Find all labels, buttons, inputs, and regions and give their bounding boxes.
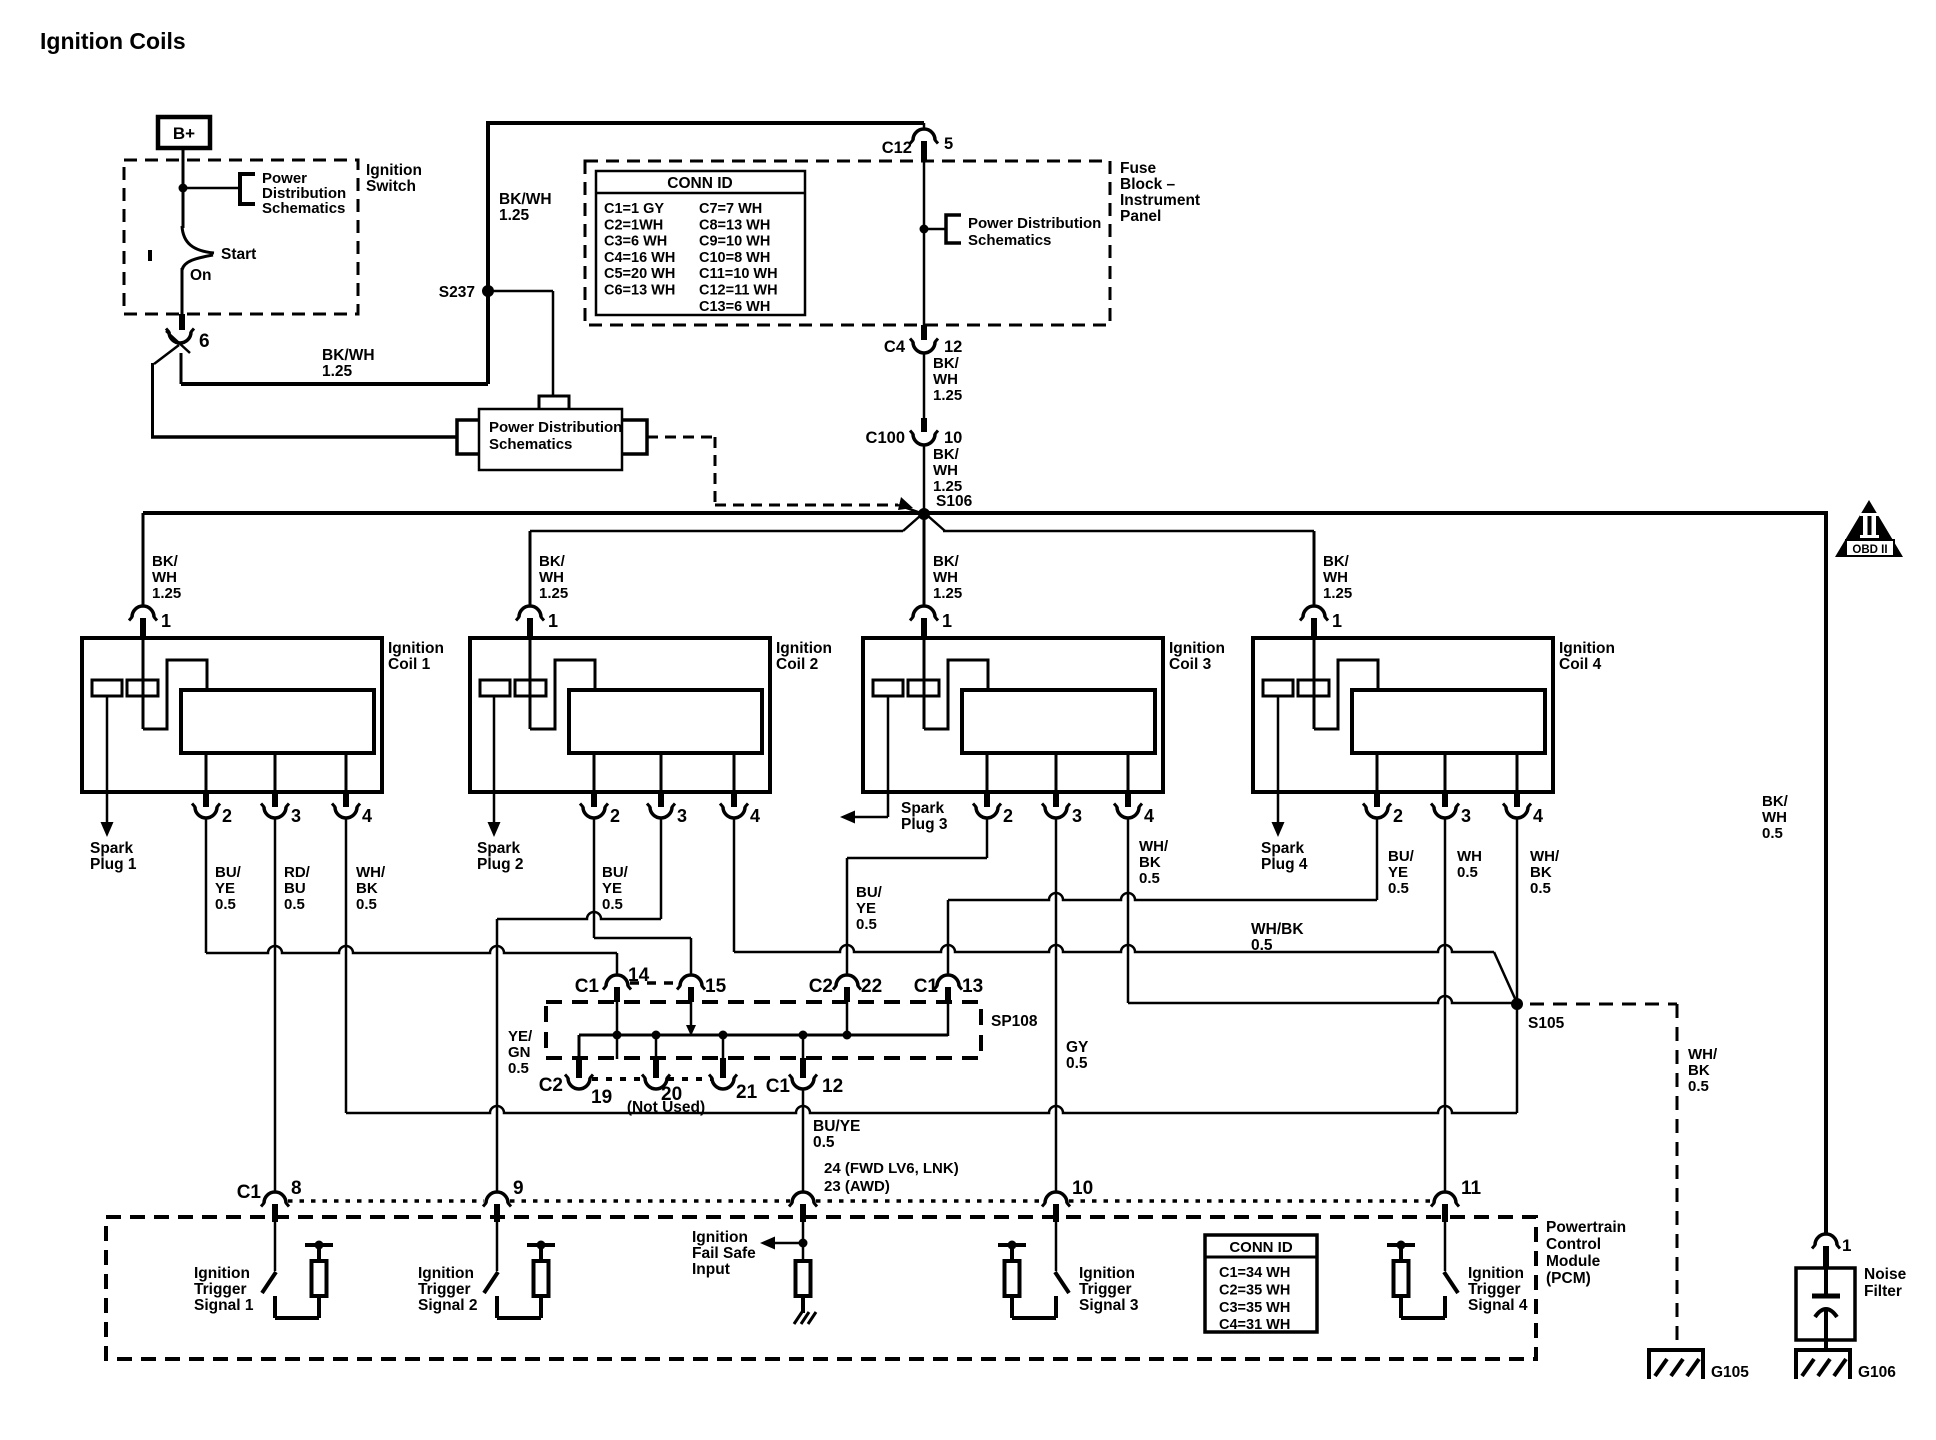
svg-text:Plug 1: Plug 1 (90, 856, 137, 873)
wire SP108 pin12 BU/YE 0.5 to PCM (802, 1089, 805, 1192)
wire coil3 pin4 WH/BK 0.5 to splice S105 (1127, 818, 1130, 1003)
svg-text:WH: WH (539, 569, 564, 586)
wire pin6 to power distribution schematics box (151, 363, 154, 437)
ignition coil 1 primary terminal blocks (92, 680, 122, 696)
svg-text:BU/: BU/ (1388, 848, 1415, 865)
svg-text:Spark: Spark (1261, 840, 1304, 857)
svg-text:WH: WH (1323, 569, 1348, 586)
ignition switch contact On (182, 255, 213, 270)
connector pin 4 of ignition coil 1 (343, 793, 349, 807)
svg-text:C12=11 WH: C12=11 WH (699, 283, 778, 299)
power distribution schematics box (479, 409, 622, 470)
svg-text:4: 4 (362, 806, 372, 826)
svg-text:0.5: 0.5 (1530, 880, 1551, 897)
PCM connector row dotted line (288, 1199, 484, 1203)
svg-text:Plug 3: Plug 3 (901, 816, 948, 833)
svg-text:0.5: 0.5 (1139, 870, 1160, 887)
svg-text:1.25: 1.25 (499, 207, 530, 224)
svg-text:1.25: 1.25 (152, 585, 181, 602)
bus branch to coil 2 (530, 530, 903, 533)
svg-text:Schematics: Schematics (489, 436, 572, 453)
wire coil3 pin2 BU/YE 0.5 to SP108 pin 22 (986, 818, 989, 858)
svg-text:GN: GN (508, 1044, 531, 1061)
power distribution schematics bracket (fuse block) (946, 215, 961, 243)
svg-text:Plug 4: Plug 4 (1261, 856, 1308, 873)
svg-text:3: 3 (1461, 806, 1471, 826)
connector pin 4 of ignition coil 4 (1514, 793, 1520, 807)
svg-text:S105: S105 (1528, 1015, 1565, 1032)
wire coil4 pin4 WH/BK 0.5 through S105 (1516, 818, 1519, 1113)
main bus wire BK/WH (143, 511, 1826, 515)
ignition coil 1 output pins (205, 753, 208, 793)
ignition coil 2 secondary winding box (569, 690, 762, 753)
svg-text:BU/: BU/ (215, 864, 242, 881)
CONN ID table (PCM) (1205, 1235, 1317, 1332)
connector pin 3 of ignition coil 3 (1053, 793, 1059, 807)
wire coil3 pin3 GY 0.5 to PCM pin 10 (1055, 818, 1058, 1192)
B+ battery terminal box (158, 117, 210, 148)
ignition coil 2 primary terminal blocks (480, 680, 510, 696)
svg-text:WH: WH (1762, 809, 1787, 826)
svg-text:1: 1 (942, 611, 952, 631)
svg-text:BK/: BK/ (1323, 553, 1350, 570)
svg-text:3: 3 (677, 806, 687, 826)
connector PCM pin 10 (1045, 1192, 1067, 1203)
svg-text:6: 6 (199, 331, 210, 352)
connector pin 2 of ignition coil 4 (1374, 793, 1380, 807)
ignition coil 3 output pins (986, 753, 989, 793)
connector SP108 C2 pin 19 (578, 1035, 581, 1062)
svg-text:BU/: BU/ (856, 884, 883, 901)
svg-text:Signal 4: Signal 4 (1468, 1297, 1528, 1314)
svg-text:Coil 4: Coil 4 (1559, 656, 1602, 673)
svg-text:Ignition: Ignition (1468, 1265, 1524, 1282)
svg-text:1.25: 1.25 (933, 585, 962, 602)
svg-text:10: 10 (944, 429, 962, 447)
svg-text:C100: C100 (866, 429, 905, 447)
ignition coil 4 output pins (1376, 753, 1379, 793)
svg-text:C2=1WH: C2=1WH (604, 217, 663, 233)
svg-text:C1: C1 (766, 1076, 791, 1097)
wire to power distribution reference (183, 187, 240, 190)
svg-text:WH/: WH/ (1139, 838, 1169, 855)
svg-text:BK/WH: BK/WH (499, 191, 552, 208)
svg-text:WH: WH (1457, 848, 1482, 865)
wire coil4 pin2 BU/YE 0.5 to SP108 pin 13 (1376, 818, 1379, 900)
wire bus drop to ignition coil 3 BK/WH 1.25 (923, 516, 926, 607)
svg-text:C5=20 WH: C5=20 WH (604, 266, 675, 282)
wire B+ to ignition switch (182, 148, 185, 228)
svg-text:Power Distribution: Power Distribution (968, 215, 1101, 232)
dashed connector line pins 14-15 (630, 981, 680, 985)
svg-text:G105: G105 (1711, 1364, 1749, 1381)
svg-text:(Not Used): (Not Used) (627, 1099, 705, 1116)
svg-text:Spark: Spark (90, 840, 133, 857)
svg-text:Coil 3: Coil 3 (1169, 656, 1212, 673)
power distribution schematics bracket (ignition switch) (240, 174, 255, 204)
splice S106 (918, 508, 930, 520)
connector PCM pin 11 (1434, 1192, 1456, 1203)
svg-text:Ignition: Ignition (776, 640, 832, 657)
bus branch to coil 4 (928, 516, 945, 531)
wire coil4 pin3 WH 0.5 to PCM pin 11 (1444, 818, 1447, 1192)
svg-text:C4=16 WH: C4=16 WH (604, 250, 675, 266)
splice S105 (1511, 998, 1523, 1010)
svg-text:YE/: YE/ (508, 1028, 533, 1045)
connector pin 1 of ignition coil 4 (1303, 606, 1325, 617)
svg-text:BK: BK (1139, 854, 1161, 871)
svg-text:0.5: 0.5 (1388, 880, 1409, 897)
svg-text:BK: BK (356, 880, 378, 897)
svg-text:C12: C12 (882, 139, 912, 157)
connector noise filter pin 1 (1815, 1234, 1837, 1245)
svg-text:Signal 2: Signal 2 (418, 1297, 477, 1314)
svg-text:RD/: RD/ (284, 864, 311, 881)
ground G105 (1647, 1348, 1705, 1352)
svg-text:Ignition: Ignition (388, 640, 444, 657)
ignition coil 3 secondary winding box (962, 690, 1155, 753)
svg-text:Trigger: Trigger (1468, 1281, 1521, 1298)
connector pin 1 of ignition coil 3 (913, 606, 935, 617)
wire S237 up to C12 feed line (486, 123, 490, 293)
svg-text:Signal 1: Signal 1 (194, 1297, 254, 1314)
svg-text:BK/: BK/ (152, 553, 179, 570)
svg-text:Ignition: Ignition (1169, 640, 1225, 657)
connector pin 2 of ignition coil 3 (984, 793, 990, 807)
svg-text:CONN ID: CONN ID (667, 175, 732, 192)
svg-text:4: 4 (1144, 806, 1154, 826)
svg-text:YE: YE (1388, 864, 1408, 881)
svg-text:12: 12 (822, 1076, 843, 1097)
ignition coil 3 primary wire (923, 639, 926, 729)
svg-text:On: On (190, 267, 212, 284)
svg-text:0.5: 0.5 (356, 896, 377, 913)
svg-text:C11=10 WH: C11=10 WH (699, 266, 778, 282)
svg-text:WH/BK: WH/BK (1251, 921, 1304, 938)
ignition coil 1 box (82, 638, 382, 792)
ignition trigger signal 3 driver (switch + resistor) (1055, 1222, 1058, 1271)
svg-text:BK/: BK/ (933, 446, 960, 463)
connector SP108 pin 15 (680, 975, 702, 986)
svg-text:1: 1 (1842, 1236, 1851, 1255)
spark plug 4 wire (1277, 696, 1280, 823)
connector pin 3 of ignition coil 4 (1442, 793, 1448, 807)
svg-text:11: 11 (1461, 1178, 1482, 1199)
svg-text:BK/: BK/ (933, 553, 960, 570)
connector SP108 C1 pin 12 (802, 1035, 805, 1062)
svg-text:B+: B+ (173, 124, 195, 143)
svg-text:Signal 3: Signal 3 (1079, 1297, 1139, 1314)
connector C100 pin 10 (921, 418, 927, 432)
svg-text:1.25: 1.25 (1323, 585, 1352, 602)
svg-text:0.5: 0.5 (1457, 864, 1478, 881)
connector pin 1 of ignition coil 2 (519, 606, 541, 617)
wire coil1 pin3 RD/BU 0.5 to PCM pin 8 (274, 818, 277, 1192)
svg-text:BU/YE: BU/YE (813, 1118, 860, 1135)
svg-text:1: 1 (1332, 611, 1342, 631)
svg-text:Filter: Filter (1864, 1283, 1902, 1300)
power distribution box right bracket (622, 420, 647, 454)
ignition coil 3 primary terminal blocks (873, 680, 903, 696)
power distribution box left bracket (457, 420, 479, 454)
svg-text:Coil 2: Coil 2 (776, 656, 818, 673)
connector PCM pin 24/23 (fail safe) (792, 1192, 814, 1203)
connector pin 4 of ignition coil 2 (731, 793, 737, 807)
svg-text:YE: YE (602, 880, 622, 897)
wire bus drop to ignition coil 1 BK/WH 1.25 (142, 513, 145, 607)
svg-text:C6=13 WH: C6=13 WH (604, 283, 675, 299)
connector C4 pin 12 (921, 325, 927, 340)
svg-text:Block –: Block – (1120, 176, 1176, 193)
svg-text:C1=34 WH: C1=34 WH (1219, 1265, 1290, 1281)
CONN ID table (fuse block) (596, 171, 805, 315)
svg-text:G106: G106 (1858, 1364, 1896, 1381)
SP108 internal bus wire (579, 1034, 948, 1037)
svg-text:0.5: 0.5 (856, 916, 877, 933)
noise filter capacitor (1824, 1268, 1828, 1294)
svg-text:Start: Start (221, 246, 256, 263)
wire coil1 pin4 WH/BK 0.5 to S105 branch (345, 818, 348, 1113)
svg-text:C1: C1 (575, 976, 600, 997)
svg-text:1.25: 1.25 (933, 387, 962, 404)
svg-text:C2=35 WH: C2=35 WH (1219, 1282, 1290, 1298)
spark plug 2 wire (493, 696, 496, 823)
svg-text:2: 2 (1003, 806, 1013, 826)
svg-text:Panel: Panel (1120, 208, 1161, 225)
svg-text:2: 2 (222, 806, 232, 826)
connector SP108 C2 pin 22 (836, 975, 858, 986)
wire from pin 6 (crossing ticks) (154, 345, 179, 364)
svg-text:C2: C2 (809, 976, 833, 997)
wire pin6 to splice S237 BK/WH 1.25 (180, 353, 183, 384)
svg-text:9: 9 (513, 1178, 524, 1199)
ignition trigger signal 4 driver (switch + resistor) (1444, 1222, 1447, 1271)
ground G106 (1794, 1348, 1852, 1352)
svg-text:0.5: 0.5 (215, 896, 236, 913)
OBD II symbol (1835, 500, 1903, 557)
fuse block - instrument panel dashed box (585, 161, 1110, 325)
svg-text:GY: GY (1066, 1039, 1089, 1056)
svg-text:2: 2 (1393, 806, 1403, 826)
wire bus to noise filter (right edge) (1824, 511, 1828, 1234)
svg-text:S106: S106 (936, 493, 973, 510)
svg-text:Coil 1: Coil 1 (388, 656, 431, 673)
svg-text:Switch: Switch (366, 178, 416, 195)
svg-text:0.5: 0.5 (1066, 1055, 1088, 1072)
wire coil2 pin3 to PCM pin 9 (660, 818, 663, 919)
ignition coil 2 primary wire (529, 639, 532, 729)
svg-text:21: 21 (736, 1082, 758, 1103)
svg-text:1: 1 (161, 611, 171, 631)
svg-text:0.5: 0.5 (284, 896, 305, 913)
svg-text:C1: C1 (237, 1182, 262, 1203)
svg-text:15: 15 (705, 976, 727, 997)
svg-text:C7=7 WH: C7=7 WH (699, 201, 762, 217)
node: junction at ignition switch feed (179, 184, 188, 193)
svg-text:BU: BU (284, 880, 306, 897)
svg-text:BK/WH: BK/WH (322, 347, 375, 364)
svg-text:0.5: 0.5 (1762, 825, 1783, 842)
svg-text:Ignition: Ignition (1079, 1265, 1135, 1282)
svg-text:C3=6 WH: C3=6 WH (604, 234, 667, 250)
ignition trigger signal 1 driver (switch + resistor) (274, 1222, 277, 1271)
svg-text:YE: YE (215, 880, 235, 897)
svg-text:24 (FWD LV6, LNK): 24 (FWD LV6, LNK) (824, 1160, 959, 1177)
svg-text:WH/: WH/ (1688, 1046, 1718, 1063)
ignition coil 3 box (863, 638, 1163, 792)
ignition trigger signal 2 driver (switch + resistor) (496, 1222, 499, 1271)
svg-text:19: 19 (591, 1087, 612, 1108)
svg-text:Trigger: Trigger (418, 1281, 471, 1298)
svg-text:0.5: 0.5 (1688, 1078, 1709, 1095)
ignition coil 2 box (470, 638, 770, 792)
connector SP108 pin 21 (722, 1035, 725, 1062)
svg-text:Ignition: Ignition (366, 162, 422, 179)
connector pin 2 of ignition coil 1 (203, 793, 209, 807)
connector pin 6 of ignition switch (179, 314, 185, 330)
svg-text:WH: WH (933, 462, 958, 479)
svg-text:Ignition: Ignition (194, 1265, 250, 1282)
svg-text:BK: BK (1688, 1062, 1710, 1079)
dashed wire S105 to ground G105 WH/BK 0.5 (1530, 1003, 1677, 1006)
wire coil2 pin2 BU/YE 0.5 to SP108 pin 15 (593, 818, 596, 938)
connector pin 4 of ignition coil 3 (1125, 793, 1131, 807)
svg-text:Control: Control (1546, 1236, 1601, 1253)
connector PCM pin 9 (486, 1192, 508, 1203)
wire inside fuse block (923, 161, 926, 325)
svg-text:12: 12 (944, 338, 962, 356)
svg-text:SP108: SP108 (991, 1013, 1038, 1030)
svg-text:S237: S237 (439, 284, 475, 301)
connector C12 pin 5 (923, 123, 926, 130)
svg-text:C1: C1 (914, 976, 939, 997)
svg-text:C13=6 WH: C13=6 WH (699, 299, 770, 315)
spark plug 3 wire (887, 696, 890, 817)
ignition fail safe input circuit (802, 1222, 805, 1261)
ground (PCM internal) (794, 1312, 802, 1324)
svg-text:CONN ID: CONN ID (1229, 1239, 1293, 1256)
connector SP108 C1 pin 14 (606, 975, 628, 986)
svg-text:Ignition: Ignition (1559, 640, 1615, 657)
ignition switch dashed box (124, 160, 358, 314)
wire C4 to C100 BK/WH 1.25 (923, 353, 926, 420)
svg-text:23 (AWD): 23 (AWD) (824, 1178, 890, 1195)
wire bus drop to ignition coil 4 BK/WH 1.25 (1313, 531, 1316, 607)
svg-text:(PCM): (PCM) (1546, 1270, 1591, 1287)
svg-text:13: 13 (962, 976, 983, 997)
svg-text:Module: Module (1546, 1253, 1601, 1270)
svg-text:BK/: BK/ (933, 355, 960, 372)
wire coil2 pin4 WH/BK 0.5 to splice S105 (733, 818, 736, 952)
connector PCM pin 8 (264, 1192, 286, 1203)
svg-text:3: 3 (291, 806, 301, 826)
wire bus drop to ignition coil 2 BK/WH 1.25 (529, 531, 532, 607)
connector SP108 pin 20 (not used) (655, 1035, 658, 1062)
wire coil1 pin2 BU/YE 0.5 to SP108 pin 14 (205, 818, 208, 953)
svg-text:10: 10 (1072, 1178, 1093, 1199)
svg-text:Ignition: Ignition (418, 1265, 474, 1282)
dotted connector line pins 19-21 (592, 1077, 644, 1081)
dashed wire from power distribution box to S106 (647, 436, 716, 439)
svg-text:4: 4 (1533, 806, 1543, 826)
connector pin 3 of ignition coil 2 (658, 793, 664, 807)
svg-text:OBD II: OBD II (1852, 544, 1887, 556)
ignition coil 2 output pins (593, 753, 596, 793)
svg-text:0.5: 0.5 (1251, 937, 1273, 954)
svg-text:WH: WH (152, 569, 177, 586)
powertrain control module dashed box (106, 1217, 1536, 1359)
svg-text:BU/: BU/ (602, 864, 629, 881)
connector pin 2 of ignition coil 2 (591, 793, 597, 807)
svg-text:WH/: WH/ (1530, 848, 1560, 865)
svg-text:Trigger: Trigger (1079, 1281, 1132, 1298)
svg-text:Input: Input (692, 1261, 730, 1278)
lock position tick (148, 250, 152, 261)
svg-text:Schematics: Schematics (968, 232, 1051, 249)
svg-text:WH/: WH/ (356, 864, 386, 881)
svg-text:1.25: 1.25 (322, 363, 353, 380)
svg-text:Noise: Noise (1864, 1266, 1907, 1283)
svg-text:Instrument: Instrument (1120, 192, 1200, 209)
noise filter box (1796, 1268, 1855, 1340)
splice S237 (486, 291, 490, 384)
svg-text:Spark: Spark (901, 800, 944, 817)
ignition coil 4 box (1253, 638, 1553, 792)
svg-text:C3=35 WH: C3=35 WH (1219, 1300, 1290, 1316)
ignition coil 4 primary wire (1313, 639, 1316, 729)
svg-text:YE: YE (856, 900, 876, 917)
svg-text:Spark: Spark (477, 840, 520, 857)
ignition coil 4 secondary winding box (1352, 690, 1545, 753)
svg-text:0.5: 0.5 (813, 1134, 835, 1151)
wire S237 to power distribution schematics box top (488, 290, 553, 293)
svg-text:WH: WH (933, 371, 958, 388)
svg-text:1: 1 (548, 611, 558, 631)
splice pack SP108 dashed box (546, 1002, 981, 1058)
svg-text:C9=10 WH: C9=10 WH (699, 234, 770, 250)
svg-text:0.5: 0.5 (508, 1060, 529, 1077)
svg-text:8: 8 (291, 1178, 302, 1199)
svg-text:C4=31 WH: C4=31 WH (1219, 1317, 1290, 1333)
ignition coil 1 primary wire (142, 639, 145, 729)
svg-text:Powertrain: Powertrain (1546, 1219, 1626, 1236)
node: power distribution tap in fuse block (920, 225, 929, 234)
svg-text:Fail Safe: Fail Safe (692, 1245, 756, 1262)
svg-text:2: 2 (610, 806, 620, 826)
svg-text:C4: C4 (884, 338, 906, 356)
connector pin 3 of ignition coil 1 (272, 793, 278, 807)
svg-text:22: 22 (861, 976, 882, 997)
svg-text:5: 5 (944, 135, 953, 153)
connector pin 1 of ignition coil 1 (132, 606, 154, 617)
svg-text:BK: BK (1530, 864, 1552, 881)
svg-text:C1=1 GY: C1=1 GY (604, 201, 664, 217)
svg-text:Plug 2: Plug 2 (477, 856, 524, 873)
svg-text:0.5: 0.5 (602, 896, 623, 913)
svg-text:BK/: BK/ (1762, 793, 1789, 810)
connector SP108 C1 pin 13 (937, 975, 959, 986)
svg-text:Fuse: Fuse (1120, 160, 1157, 177)
svg-text:C10=8 WH: C10=8 WH (699, 250, 770, 266)
svg-text:1.25: 1.25 (539, 585, 568, 602)
svg-text:Schematics: Schematics (262, 200, 345, 217)
svg-text:Ignition: Ignition (692, 1229, 748, 1246)
svg-text:C2: C2 (539, 1075, 563, 1096)
ignition switch contact Start (182, 226, 214, 253)
ignition coil 4 primary terminal blocks (1263, 680, 1293, 696)
svg-text:Power Distribution: Power Distribution (489, 419, 622, 436)
ignition coil 1 secondary winding box (181, 690, 374, 753)
